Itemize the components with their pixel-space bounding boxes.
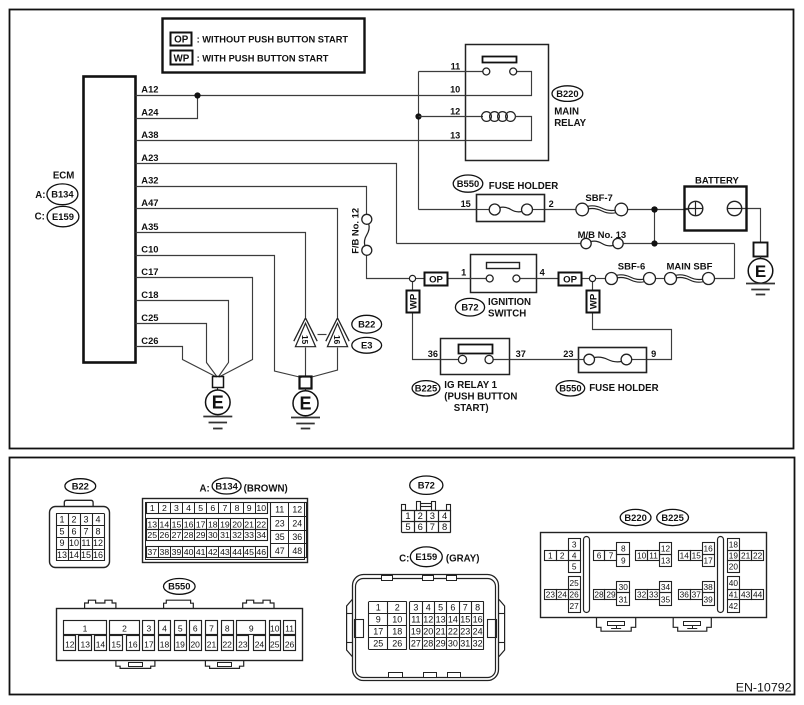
svg-text:7: 7 bbox=[463, 603, 468, 613]
svg-text:5: 5 bbox=[178, 623, 183, 633]
svg-text:9: 9 bbox=[59, 538, 64, 548]
svg-text:A24: A24 bbox=[141, 107, 159, 118]
svg-text:7: 7 bbox=[222, 503, 227, 513]
svg-text:6: 6 bbox=[597, 551, 602, 561]
svg-text:22: 22 bbox=[753, 551, 763, 561]
svg-text:: WITHOUT PUSH BUTTON START: : WITHOUT PUSH BUTTON START bbox=[197, 34, 349, 44]
svg-text:8: 8 bbox=[475, 603, 480, 613]
svg-text:E3: E3 bbox=[361, 340, 372, 351]
svg-text:16: 16 bbox=[473, 615, 483, 625]
svg-text:15: 15 bbox=[172, 519, 182, 529]
svg-text:15: 15 bbox=[300, 335, 310, 345]
svg-text:C:: C: bbox=[399, 553, 409, 564]
svg-text:13: 13 bbox=[57, 550, 67, 560]
svg-text:WP: WP bbox=[409, 293, 420, 309]
svg-text:17: 17 bbox=[196, 519, 206, 529]
svg-text:7: 7 bbox=[209, 623, 214, 633]
svg-text:7: 7 bbox=[609, 551, 614, 561]
svg-text:9: 9 bbox=[651, 349, 656, 359]
svg-text:16: 16 bbox=[184, 519, 194, 529]
svg-text:24: 24 bbox=[292, 518, 302, 528]
svg-text:48: 48 bbox=[292, 546, 302, 556]
svg-text:1: 1 bbox=[150, 503, 155, 513]
svg-text:9: 9 bbox=[249, 623, 254, 633]
svg-text:B22: B22 bbox=[358, 319, 375, 330]
svg-text:14: 14 bbox=[680, 551, 690, 561]
svg-text:11: 11 bbox=[411, 615, 420, 625]
svg-text:26: 26 bbox=[392, 639, 402, 649]
svg-text:13: 13 bbox=[450, 130, 460, 140]
svg-text:A23: A23 bbox=[141, 152, 158, 163]
svg-text:B134: B134 bbox=[51, 189, 74, 200]
svg-text:2: 2 bbox=[395, 603, 400, 613]
svg-text:23: 23 bbox=[460, 627, 470, 637]
svg-text:11: 11 bbox=[275, 505, 284, 515]
svg-text:15: 15 bbox=[692, 551, 702, 561]
svg-text:5: 5 bbox=[572, 562, 577, 572]
svg-text:40: 40 bbox=[184, 547, 194, 557]
svg-text:38: 38 bbox=[160, 547, 170, 557]
svg-text:32: 32 bbox=[637, 589, 647, 599]
svg-text:2: 2 bbox=[418, 510, 423, 521]
svg-text:47: 47 bbox=[275, 546, 285, 556]
svg-text:28: 28 bbox=[594, 589, 604, 599]
svg-text:4: 4 bbox=[540, 268, 546, 278]
svg-text:(PUSH BUTTON: (PUSH BUTTON bbox=[444, 392, 517, 403]
svg-text:IG RELAY 1: IG RELAY 1 bbox=[444, 380, 497, 391]
svg-text:2: 2 bbox=[71, 514, 76, 524]
svg-text:1: 1 bbox=[461, 268, 466, 278]
svg-text:23: 23 bbox=[546, 589, 556, 599]
svg-text:20: 20 bbox=[190, 639, 200, 649]
svg-text:44: 44 bbox=[232, 547, 242, 557]
svg-text:B550: B550 bbox=[457, 178, 479, 189]
svg-text:26: 26 bbox=[570, 589, 580, 599]
svg-text:31: 31 bbox=[220, 530, 230, 540]
svg-text:26: 26 bbox=[160, 530, 170, 540]
svg-text:6: 6 bbox=[210, 503, 215, 513]
svg-text:27: 27 bbox=[411, 639, 421, 649]
svg-text:17: 17 bbox=[144, 639, 154, 649]
svg-text:4: 4 bbox=[162, 623, 167, 633]
svg-text:44: 44 bbox=[753, 589, 763, 599]
svg-text:36: 36 bbox=[292, 532, 302, 542]
svg-text:16: 16 bbox=[128, 639, 138, 649]
svg-text:3: 3 bbox=[147, 623, 152, 633]
svg-text:11: 11 bbox=[285, 623, 294, 633]
svg-text:18: 18 bbox=[729, 539, 739, 549]
svg-text:B22: B22 bbox=[72, 480, 89, 491]
svg-text:42: 42 bbox=[208, 547, 218, 557]
svg-text:7: 7 bbox=[83, 526, 88, 536]
svg-text:46: 46 bbox=[256, 547, 266, 557]
svg-text:MAIN SBF: MAIN SBF bbox=[667, 261, 713, 272]
svg-text:A12: A12 bbox=[141, 84, 158, 95]
svg-text:C18: C18 bbox=[141, 289, 158, 300]
svg-text:45: 45 bbox=[244, 547, 254, 557]
svg-text:16: 16 bbox=[704, 544, 714, 554]
svg-text:10: 10 bbox=[392, 615, 402, 625]
svg-text:31: 31 bbox=[619, 594, 629, 604]
svg-text:13: 13 bbox=[147, 519, 157, 529]
svg-text:13: 13 bbox=[81, 639, 91, 649]
svg-text:20: 20 bbox=[423, 627, 433, 637]
svg-text:25: 25 bbox=[570, 578, 580, 588]
svg-text:OP: OP bbox=[429, 274, 443, 285]
svg-text:28: 28 bbox=[184, 530, 194, 540]
svg-text:1: 1 bbox=[548, 551, 553, 561]
svg-text:A32: A32 bbox=[141, 175, 158, 186]
svg-text:OP: OP bbox=[563, 274, 577, 285]
svg-text:A38: A38 bbox=[141, 129, 158, 140]
svg-text:1: 1 bbox=[376, 603, 381, 613]
svg-text:3: 3 bbox=[83, 514, 88, 524]
svg-text:5: 5 bbox=[438, 603, 443, 613]
svg-text:1: 1 bbox=[59, 514, 64, 524]
svg-text:42: 42 bbox=[729, 601, 739, 611]
svg-text:33: 33 bbox=[244, 530, 254, 540]
svg-text:: WITH PUSH BUTTON START: : WITH PUSH BUTTON START bbox=[197, 53, 329, 63]
svg-text:ECM: ECM bbox=[53, 170, 75, 181]
svg-text:16: 16 bbox=[332, 335, 342, 345]
svg-text:16: 16 bbox=[93, 550, 103, 560]
svg-text:15: 15 bbox=[81, 550, 91, 560]
svg-text:20: 20 bbox=[729, 562, 739, 572]
svg-text:A47: A47 bbox=[141, 197, 158, 208]
svg-text:WP: WP bbox=[589, 293, 600, 309]
svg-text:WP: WP bbox=[174, 53, 190, 64]
svg-text:E159: E159 bbox=[415, 551, 437, 562]
svg-text:37: 37 bbox=[516, 349, 526, 359]
svg-text:21: 21 bbox=[741, 551, 751, 561]
svg-text:41: 41 bbox=[729, 589, 739, 599]
svg-text:E159: E159 bbox=[52, 211, 74, 222]
svg-text:9: 9 bbox=[376, 615, 381, 625]
svg-text:36: 36 bbox=[680, 589, 690, 599]
svg-text:4: 4 bbox=[95, 514, 100, 524]
svg-text:EN-10792: EN-10792 bbox=[736, 680, 792, 694]
svg-text:6: 6 bbox=[450, 603, 455, 613]
svg-text:3: 3 bbox=[174, 503, 179, 513]
svg-text:22: 22 bbox=[222, 639, 232, 649]
svg-text:23: 23 bbox=[238, 639, 248, 649]
svg-text:37: 37 bbox=[147, 547, 157, 557]
svg-text:33: 33 bbox=[649, 589, 659, 599]
svg-text:4: 4 bbox=[572, 551, 577, 561]
svg-text:C26: C26 bbox=[141, 335, 158, 346]
svg-text:8: 8 bbox=[235, 503, 240, 513]
svg-text:41: 41 bbox=[196, 547, 206, 557]
svg-text:FUSE HOLDER: FUSE HOLDER bbox=[489, 181, 558, 192]
svg-text:29: 29 bbox=[196, 530, 206, 540]
svg-text:19: 19 bbox=[175, 639, 185, 649]
svg-text:10: 10 bbox=[637, 551, 647, 561]
svg-text:MAIN: MAIN bbox=[554, 107, 579, 118]
svg-text:11: 11 bbox=[649, 551, 658, 561]
svg-text:8: 8 bbox=[442, 521, 447, 532]
svg-text:19: 19 bbox=[729, 551, 739, 561]
svg-text:34: 34 bbox=[256, 530, 266, 540]
svg-text:29: 29 bbox=[606, 589, 616, 599]
svg-text:17: 17 bbox=[373, 627, 383, 637]
svg-text:32: 32 bbox=[473, 639, 483, 649]
svg-text:23: 23 bbox=[275, 518, 285, 528]
svg-text:43: 43 bbox=[220, 547, 230, 557]
svg-text:C:: C: bbox=[35, 212, 45, 223]
svg-text:15: 15 bbox=[461, 199, 471, 209]
svg-text:14: 14 bbox=[160, 519, 170, 529]
svg-text:8: 8 bbox=[621, 544, 626, 554]
svg-text:(BROWN): (BROWN) bbox=[244, 483, 288, 494]
svg-text:E: E bbox=[212, 393, 224, 413]
svg-text:B550: B550 bbox=[168, 581, 190, 592]
svg-text:37: 37 bbox=[692, 589, 702, 599]
svg-text:21: 21 bbox=[207, 639, 217, 649]
svg-text:A:: A: bbox=[200, 483, 210, 494]
svg-text:31: 31 bbox=[460, 639, 470, 649]
svg-text:BATTERY: BATTERY bbox=[695, 176, 739, 187]
svg-text:38: 38 bbox=[704, 582, 714, 592]
svg-text:7: 7 bbox=[430, 521, 435, 532]
svg-text:START): START) bbox=[454, 403, 489, 414]
svg-text:11: 11 bbox=[81, 538, 90, 548]
svg-text:B72: B72 bbox=[461, 302, 478, 313]
svg-text:21: 21 bbox=[436, 627, 446, 637]
svg-text:IGNITION: IGNITION bbox=[488, 297, 531, 308]
svg-text:43: 43 bbox=[741, 589, 751, 599]
svg-text:26: 26 bbox=[285, 639, 295, 649]
svg-text:3: 3 bbox=[430, 510, 435, 521]
svg-text:13: 13 bbox=[661, 556, 671, 566]
svg-text:A:: A: bbox=[35, 190, 45, 201]
svg-text:(GRAY): (GRAY) bbox=[446, 554, 480, 565]
svg-text:B72: B72 bbox=[418, 480, 435, 491]
svg-text:34: 34 bbox=[661, 582, 671, 592]
svg-text:30: 30 bbox=[448, 639, 458, 649]
svg-text:6: 6 bbox=[193, 623, 198, 633]
svg-text:24: 24 bbox=[473, 627, 483, 637]
svg-text:C17: C17 bbox=[141, 266, 158, 277]
svg-text:8: 8 bbox=[95, 526, 100, 536]
svg-text:18: 18 bbox=[160, 639, 170, 649]
svg-text:18: 18 bbox=[208, 519, 218, 529]
svg-text:28: 28 bbox=[423, 639, 433, 649]
svg-text:20: 20 bbox=[232, 519, 242, 529]
svg-text:5: 5 bbox=[59, 526, 64, 536]
svg-text:12: 12 bbox=[65, 639, 75, 649]
svg-text:9: 9 bbox=[621, 556, 626, 566]
svg-text:13: 13 bbox=[436, 615, 446, 625]
svg-text:2: 2 bbox=[162, 503, 167, 513]
svg-text:40: 40 bbox=[729, 578, 739, 588]
svg-text:23: 23 bbox=[563, 349, 573, 359]
svg-text:19: 19 bbox=[411, 627, 421, 637]
svg-text:36: 36 bbox=[428, 349, 438, 359]
svg-text:6: 6 bbox=[71, 526, 76, 536]
svg-text:C25: C25 bbox=[141, 312, 158, 323]
svg-text:8: 8 bbox=[225, 623, 230, 633]
svg-text:39: 39 bbox=[704, 594, 714, 604]
svg-text:35: 35 bbox=[661, 594, 671, 604]
svg-text:2: 2 bbox=[122, 623, 127, 633]
svg-text:18: 18 bbox=[392, 627, 402, 637]
svg-text:22: 22 bbox=[256, 519, 266, 529]
svg-text:SBF-6: SBF-6 bbox=[618, 261, 645, 272]
svg-text:SBF-7: SBF-7 bbox=[585, 193, 612, 204]
svg-text:E: E bbox=[299, 394, 311, 414]
svg-text:24: 24 bbox=[255, 639, 265, 649]
svg-text:15: 15 bbox=[460, 615, 470, 625]
svg-text:9: 9 bbox=[247, 503, 252, 513]
svg-text:10: 10 bbox=[256, 503, 266, 513]
svg-text:E: E bbox=[755, 262, 766, 281]
svg-text:12: 12 bbox=[292, 505, 302, 515]
svg-text:B134: B134 bbox=[215, 480, 238, 491]
svg-text:B550: B550 bbox=[559, 383, 581, 394]
svg-text:14: 14 bbox=[96, 639, 106, 649]
svg-text:2: 2 bbox=[560, 551, 565, 561]
svg-text:27: 27 bbox=[172, 530, 182, 540]
svg-text:32: 32 bbox=[232, 530, 242, 540]
svg-text:39: 39 bbox=[172, 547, 182, 557]
svg-text:21: 21 bbox=[244, 519, 254, 529]
svg-text:14: 14 bbox=[69, 550, 79, 560]
svg-text:2: 2 bbox=[549, 199, 554, 209]
svg-text:F/B No. 12: F/B No. 12 bbox=[349, 208, 360, 254]
svg-text:10: 10 bbox=[270, 623, 280, 633]
svg-text:4: 4 bbox=[442, 510, 447, 521]
svg-text:C10: C10 bbox=[141, 244, 158, 255]
svg-text:10: 10 bbox=[69, 538, 79, 548]
svg-text:4: 4 bbox=[186, 503, 191, 513]
svg-text:B220: B220 bbox=[624, 512, 646, 523]
svg-text:30: 30 bbox=[619, 582, 629, 592]
svg-text:15: 15 bbox=[111, 639, 121, 649]
svg-text:5: 5 bbox=[198, 503, 203, 513]
svg-text:OP: OP bbox=[174, 34, 189, 45]
svg-text:1: 1 bbox=[83, 623, 88, 633]
svg-text:12: 12 bbox=[450, 106, 460, 116]
svg-text:6: 6 bbox=[418, 521, 423, 532]
svg-text:30: 30 bbox=[208, 530, 218, 540]
svg-text:10: 10 bbox=[450, 85, 460, 95]
svg-text:B220: B220 bbox=[556, 88, 578, 99]
svg-text:25: 25 bbox=[373, 639, 383, 649]
svg-text:3: 3 bbox=[572, 539, 577, 549]
svg-text:35: 35 bbox=[275, 532, 285, 542]
svg-text:22: 22 bbox=[448, 627, 458, 637]
svg-text:19: 19 bbox=[220, 519, 230, 529]
svg-text:1: 1 bbox=[405, 510, 410, 521]
svg-text:24: 24 bbox=[558, 589, 568, 599]
svg-text:17: 17 bbox=[704, 556, 714, 566]
svg-text:29: 29 bbox=[436, 639, 446, 649]
svg-text:5: 5 bbox=[405, 521, 410, 532]
svg-text:12: 12 bbox=[661, 544, 671, 554]
svg-text:B225: B225 bbox=[661, 512, 683, 523]
svg-text:A35: A35 bbox=[141, 221, 158, 232]
svg-text:RELAY: RELAY bbox=[554, 118, 586, 129]
svg-text:27: 27 bbox=[570, 601, 580, 611]
svg-text:FUSE HOLDER: FUSE HOLDER bbox=[589, 383, 658, 394]
svg-text:SWITCH: SWITCH bbox=[488, 309, 526, 320]
svg-text:B225: B225 bbox=[415, 383, 437, 394]
svg-text:3: 3 bbox=[413, 603, 418, 613]
svg-text:14: 14 bbox=[448, 615, 458, 625]
svg-text:12: 12 bbox=[93, 538, 103, 548]
svg-text:25: 25 bbox=[147, 530, 157, 540]
svg-text:25: 25 bbox=[270, 639, 280, 649]
svg-text:4: 4 bbox=[426, 603, 431, 613]
svg-text:12: 12 bbox=[423, 615, 433, 625]
svg-text:11: 11 bbox=[451, 61, 461, 71]
